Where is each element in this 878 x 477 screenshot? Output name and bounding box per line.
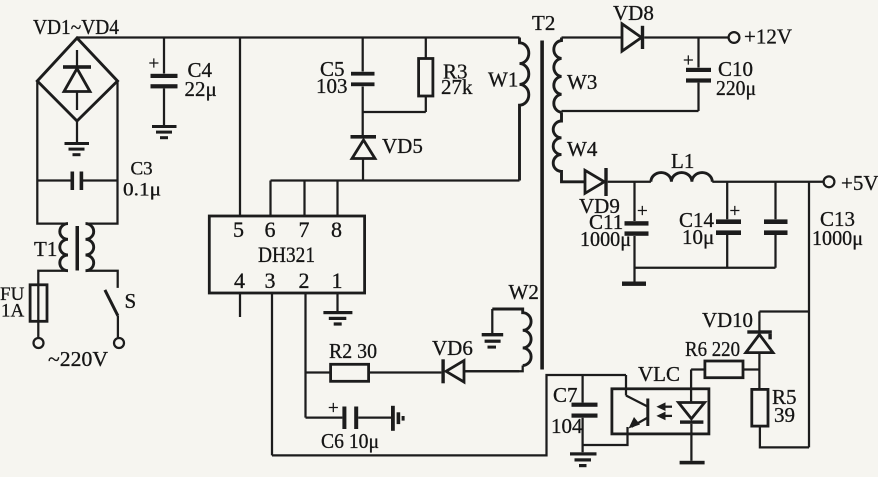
ground under C4 [152, 125, 177, 139]
opto LED [679, 403, 705, 461]
svg-text:C7: C7 [553, 383, 578, 407]
resistor R2 [331, 364, 369, 381]
svg-text:6: 6 [265, 217, 276, 242]
svg-text:4: 4 [234, 268, 245, 293]
capacitor C4 [151, 38, 178, 126]
svg-text:103: 103 [316, 74, 348, 98]
svg-text:+12V: +12V [744, 25, 792, 49]
wire pins 6 7 8 line [271, 179, 520, 181]
capacitor C11 [625, 182, 649, 282]
terminal +12V [729, 32, 740, 43]
svg-text:1: 1 [332, 268, 343, 293]
svg-text:T2: T2 [532, 11, 555, 35]
svg-text:VD6: VD6 [432, 336, 473, 360]
wire W3 top to +12V [562, 36, 729, 38]
svg-text:22μ: 22μ [185, 77, 217, 101]
svg-text:27k: 27k [441, 75, 473, 99]
wire R2 to VD6 [369, 371, 442, 373]
svg-text:10μ: 10μ [682, 225, 714, 249]
wire pin2 to R2 [306, 371, 331, 373]
svg-text:+: + [637, 201, 648, 222]
wire pin4 stub [239, 293, 241, 317]
capacitor C10 [686, 38, 711, 112]
wire pin3 down [271, 293, 273, 455]
capacitor C13 [764, 182, 788, 268]
wire R6 left to LED [691, 370, 705, 403]
svg-text:1A: 1A [1, 301, 25, 322]
svg-text:VD10: VD10 [702, 308, 753, 332]
svg-text:1000μ: 1000μ [580, 227, 631, 251]
bridge inner diode [63, 50, 91, 110]
wire T1 left bottom to fuse [38, 271, 68, 285]
svg-text:+: + [149, 54, 160, 75]
svg-text:~220V: ~220V [48, 347, 108, 371]
wire pin8 stub [336, 181, 338, 217]
svg-text:VD8: VD8 [613, 1, 654, 25]
winding W4 [553, 112, 585, 182]
svg-text:+5V: +5V [841, 171, 878, 195]
opto light arrows [656, 402, 672, 420]
wire pin1 to ground [336, 293, 338, 311]
svg-text:2: 2 [299, 268, 310, 293]
wire +5V down branch [808, 182, 810, 448]
winding W3 [554, 38, 562, 113]
terminal left [34, 338, 44, 348]
svg-text:VLC: VLC [638, 362, 680, 386]
svg-text:7: 7 [299, 217, 310, 242]
ground pin1 [323, 311, 352, 326]
capacitor C3 [37, 172, 117, 191]
svg-text:+: + [730, 201, 741, 222]
svg-text:S: S [125, 289, 137, 313]
svg-text:C3: C3 [131, 159, 153, 180]
resistor R5 [752, 389, 768, 426]
winding W1 [520, 38, 529, 181]
wire R6 branch [743, 368, 759, 370]
ground W2 [482, 309, 504, 349]
capacitor C5 [351, 38, 375, 136]
svg-text:C6 10μ: C6 10μ [321, 429, 379, 453]
wire pin5 riser [239, 38, 241, 217]
wire bottom rail secondary [635, 267, 776, 269]
wire bottom rail primary [272, 375, 626, 455]
svg-text:W3: W3 [567, 70, 597, 94]
svg-text:W1: W1 [488, 68, 518, 92]
diode VD6 [441, 359, 519, 383]
ground under bridge [65, 121, 90, 156]
ground bar LED [680, 461, 705, 465]
svg-text:+: + [683, 51, 694, 72]
terminal +5V [824, 176, 835, 187]
svg-text:39: 39 [774, 403, 795, 427]
IC U1 DH321 [209, 216, 364, 293]
wire bridge right leg down [86, 81, 118, 224]
switch S [105, 290, 118, 338]
svg-text:W2: W2 [509, 280, 539, 304]
wire R5 bottom [760, 426, 809, 447]
winding W2 [464, 309, 531, 371]
capacitor C14 [716, 182, 741, 268]
optocoupler VLC box [612, 389, 709, 434]
transformer T1 [60, 224, 94, 271]
opto phototransistor [583, 375, 648, 445]
zener VD10 [746, 330, 773, 389]
svg-text:L1: L1 [671, 149, 694, 173]
svg-text:8: 8 [331, 217, 342, 242]
inductor L1 [651, 173, 712, 182]
svg-text:+: + [328, 398, 339, 419]
wire W3 bottom to C10 bottom [562, 110, 699, 112]
svg-text:R6 220: R6 220 [685, 337, 740, 361]
bridge rectifier VD1~VD4 diamond [37, 38, 117, 121]
resistor R3 [419, 38, 433, 113]
resistor R6 [705, 361, 743, 378]
svg-text:3: 3 [265, 268, 276, 293]
capacitor C7 [572, 375, 598, 452]
wire to VD10 top [759, 312, 809, 332]
wire +5V rail [608, 181, 824, 183]
svg-text:104: 104 [551, 414, 583, 438]
diode VD5 [351, 135, 377, 181]
ground bar C11 [622, 282, 646, 286]
wire T1 right bottom to switch [86, 271, 118, 288]
core T2 [540, 41, 544, 370]
wire C5/R3 junction [363, 111, 426, 113]
svg-text:1000μ: 1000μ [812, 226, 863, 250]
svg-text:VD5: VD5 [382, 134, 423, 158]
fuse FU 1A [30, 285, 47, 338]
wire pin2 down [304, 293, 306, 418]
capacitor C6 [306, 407, 392, 430]
svg-text:R2 30: R2 30 [329, 339, 377, 363]
wire bridge left leg down [37, 81, 68, 224]
wire pin6 stub [269, 181, 271, 217]
diode VD9 [585, 168, 608, 196]
svg-text:220μ: 220μ [716, 76, 756, 100]
ground C7 [570, 452, 597, 467]
diode VD8 [622, 24, 644, 51]
ground sideways C6 [391, 406, 405, 431]
svg-text:5: 5 [233, 217, 244, 242]
svg-text:T1: T1 [34, 237, 57, 261]
terminal right [114, 338, 124, 348]
wire pin7 stub [303, 181, 305, 217]
wire top bus [77, 36, 520, 38]
svg-text:0.1μ: 0.1μ [123, 180, 161, 201]
svg-text:VD1~VD4: VD1~VD4 [33, 15, 119, 39]
svg-text:DH321: DH321 [258, 242, 315, 267]
svg-text:W4: W4 [567, 137, 598, 161]
